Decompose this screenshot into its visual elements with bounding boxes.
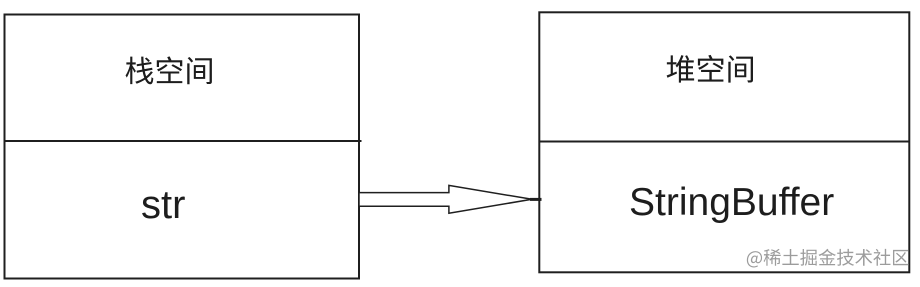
svg-text:str: str xyxy=(141,183,185,227)
hollow arrow from str to StringBuffer xyxy=(359,185,532,213)
label 栈空间 (stack space) xyxy=(126,56,212,84)
left box divider xyxy=(5,140,362,142)
right box divider xyxy=(539,141,909,143)
svg-text:StringBuffer: StringBuffer xyxy=(629,181,834,224)
left box (stack space) xyxy=(5,15,360,279)
watermark @稀土掘金技术社区 xyxy=(747,249,909,268)
arrow tip stub xyxy=(530,198,542,201)
right box (heap space) xyxy=(539,12,909,272)
label 堆空间 (heap space) xyxy=(667,55,753,83)
